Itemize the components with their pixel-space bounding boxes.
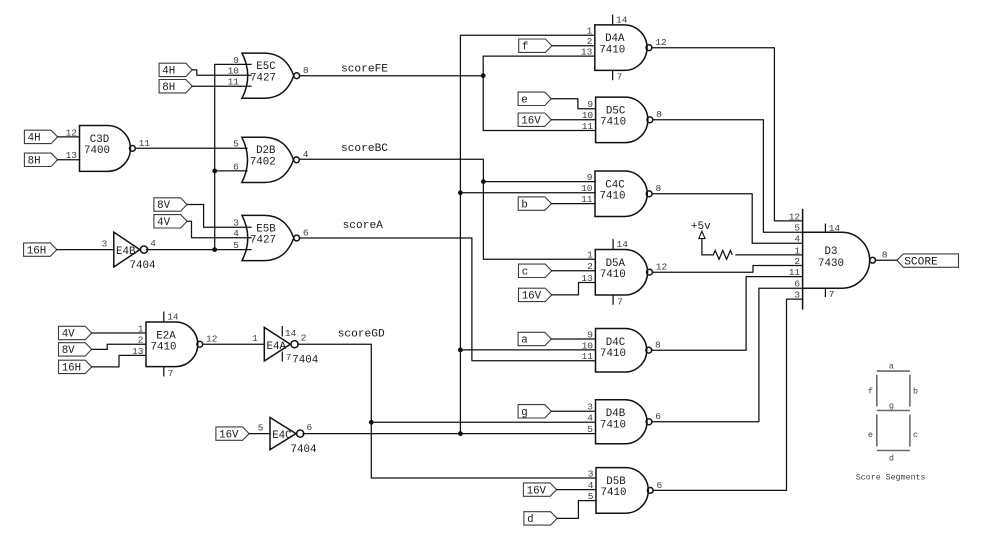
svg-text:7: 7 bbox=[286, 352, 292, 363]
wire 8H tag to E5C pin 11 bbox=[192, 85, 251, 87]
svg-text:7410: 7410 bbox=[600, 419, 626, 431]
input tag d (to D5B pin 5) bbox=[524, 512, 557, 526]
3-input NAND gate D5A (7410) bbox=[581, 239, 667, 307]
8-input NAND gate D3 (7430) bbox=[789, 209, 888, 310]
junction riser / C4C pin 10 bbox=[458, 190, 463, 195]
svg-text:4V: 4V bbox=[157, 217, 170, 229]
svg-text:7410: 7410 bbox=[600, 117, 626, 129]
svg-text:e: e bbox=[868, 430, 873, 440]
junction scoreGD / D4B pin 4 bbox=[369, 420, 374, 425]
svg-text:7410: 7410 bbox=[600, 269, 626, 281]
svg-text:E2A: E2A bbox=[156, 330, 176, 342]
input tag 16V (to E4C pin 5) bbox=[216, 427, 249, 441]
wire C4C output 8 to D3 pin 4 bbox=[653, 194, 803, 243]
wire E4C output riser to D4A pin 1 bbox=[460, 35, 594, 433]
svg-text:4H: 4H bbox=[28, 133, 41, 145]
svg-text:7404: 7404 bbox=[292, 355, 318, 367]
svg-text:6: 6 bbox=[657, 480, 663, 491]
input tag 4V (to E2A pin 1) bbox=[59, 326, 92, 340]
svg-text:14: 14 bbox=[617, 239, 629, 250]
svg-text:a: a bbox=[521, 335, 528, 347]
wire scoreA: E5B output 6 to D4C pin 11 bbox=[300, 238, 596, 361]
svg-text:g: g bbox=[521, 407, 527, 419]
wire D5A output 12 to D3 pin 2 bbox=[653, 266, 802, 273]
svg-text:16H: 16H bbox=[27, 245, 46, 257]
svg-text:D4A: D4A bbox=[605, 33, 625, 45]
svg-text:4: 4 bbox=[150, 238, 156, 249]
wire scoreGD branch to D4B pin 4 bbox=[371, 421, 595, 423]
svg-text:8V: 8V bbox=[157, 200, 170, 212]
svg-text:+5v: +5v bbox=[691, 221, 711, 233]
wire 16V tag to D5A pin 13 bbox=[552, 283, 596, 295]
wire E4B output net vertical riser to E5C pin 9 and D2B pin 6 bbox=[215, 64, 251, 249]
+5v power symbol bbox=[691, 221, 711, 239]
seven-segment legend: segment c bbox=[909, 415, 911, 447]
wire 4V tag to E2A pin 1 bbox=[92, 332, 146, 334]
svg-text:E5B: E5B bbox=[256, 223, 276, 235]
svg-text:E4C: E4C bbox=[272, 430, 292, 442]
svg-text:5: 5 bbox=[258, 422, 264, 433]
3-input NAND gate D5B (7410) bbox=[588, 468, 663, 514]
svg-text:scoreBC: scoreBC bbox=[341, 143, 388, 155]
inverter E4C (7404) bbox=[258, 418, 317, 457]
svg-text:b: b bbox=[913, 386, 918, 396]
svg-text:8: 8 bbox=[656, 109, 662, 120]
junction scoreFE riser bbox=[481, 73, 486, 78]
wire scoreFE: E5C output 8 to riser bbox=[300, 75, 484, 77]
svg-text:D5B: D5B bbox=[606, 476, 626, 488]
wire scoreFE riser branch to D5C pin 11 bbox=[483, 76, 595, 131]
svg-text:7427: 7427 bbox=[250, 72, 276, 84]
3-input NOR gate E5C (7427) bbox=[228, 53, 309, 98]
wire riser branch to D4C pin 10 bbox=[460, 349, 595, 351]
3-input NAND gate D4A (7410) bbox=[581, 15, 667, 83]
wire scoreBC: D2B output 4 to D5A pin 1 bbox=[299, 159, 595, 259]
input tag 16V (to D5B pin 4) bbox=[523, 483, 556, 497]
D3 pin 14 power stub bbox=[824, 224, 826, 233]
seven-segment legend: segment f bbox=[876, 375, 878, 407]
svg-text:6: 6 bbox=[307, 422, 313, 433]
input tag 16V (to D5C pin 10) bbox=[518, 113, 551, 127]
input tag 4H (to C3D pin 12) bbox=[24, 130, 57, 144]
svg-text:scoreFE: scoreFE bbox=[341, 64, 388, 76]
svg-text:d: d bbox=[889, 454, 894, 464]
svg-text:7410: 7410 bbox=[599, 45, 625, 57]
svg-text:D5A: D5A bbox=[606, 258, 626, 270]
svg-text:8: 8 bbox=[655, 340, 661, 351]
svg-text:8V: 8V bbox=[62, 345, 75, 357]
svg-text:6: 6 bbox=[655, 411, 661, 422]
wire e tag to D5C pin 9 bbox=[551, 99, 595, 109]
wire scoreFE riser branch to D4A pin 13 bbox=[483, 56, 595, 76]
svg-text:D2B: D2B bbox=[256, 145, 276, 157]
svg-text:8: 8 bbox=[882, 249, 888, 260]
svg-text:c: c bbox=[913, 430, 918, 440]
svg-text:7404: 7404 bbox=[291, 444, 317, 456]
wire D4A output 12 to D3 pin 12 bbox=[653, 48, 803, 221]
svg-text:12: 12 bbox=[656, 262, 668, 273]
svg-text:g: g bbox=[889, 401, 894, 411]
wire E4C output 6 to D4B pin 5 bbox=[303, 433, 596, 435]
wire D5C output 8 to D3 pin 5 bbox=[654, 120, 803, 232]
svg-text:f: f bbox=[868, 386, 873, 396]
wire 8V tag to E2A pin 2 bbox=[92, 344, 146, 349]
input tag 8V (to E5B pin 3) bbox=[154, 198, 187, 212]
wire E4B output net: E4B pin 4 to E5B pin 5 bbox=[147, 249, 252, 251]
svg-text:SCORE: SCORE bbox=[904, 256, 938, 268]
input tag b (to C4C pin 11) bbox=[518, 197, 551, 211]
svg-text:8: 8 bbox=[303, 65, 309, 76]
wire 16H tag to E2A pin 13 bbox=[92, 355, 146, 367]
wire C3D output 11 to D2B pin 5 bbox=[137, 147, 247, 149]
svg-text:3: 3 bbox=[102, 238, 108, 249]
svg-text:E4B: E4B bbox=[116, 246, 136, 258]
svg-text:7402: 7402 bbox=[250, 156, 276, 168]
wire g tag to D4B pin 3 bbox=[551, 410, 595, 412]
svg-text:16H: 16H bbox=[62, 363, 81, 375]
wire D4B output 6 to D3 pin 6 bbox=[653, 288, 803, 422]
svg-text:4H: 4H bbox=[162, 66, 175, 78]
svg-text:scoreGD: scoreGD bbox=[338, 329, 385, 341]
svg-text:7410: 7410 bbox=[151, 342, 177, 354]
wire D5B output 6 to D3 pin 3 bbox=[654, 299, 803, 490]
seven-segment legend: segment a bbox=[877, 370, 910, 372]
input tag g (to D4B pin 3) bbox=[518, 405, 551, 419]
wire 16H tag to E4B pin 3 bbox=[57, 249, 114, 251]
input tag 8H (to E5C pin 11) bbox=[159, 80, 192, 94]
svg-text:4V: 4V bbox=[62, 329, 75, 341]
svg-text:14: 14 bbox=[616, 15, 628, 26]
wire 4V tag to E5B pin 4 bbox=[187, 221, 251, 237]
seven-segment legend: segment d bbox=[877, 450, 910, 452]
svg-text:E4A: E4A bbox=[267, 341, 287, 353]
svg-text:7427: 7427 bbox=[250, 235, 276, 247]
2-input NOR gate D2B (7402) bbox=[233, 137, 309, 182]
output tag SCORE bbox=[897, 254, 959, 269]
svg-text:2: 2 bbox=[301, 333, 307, 344]
input tag 16V (to D5A pin 13) bbox=[519, 288, 552, 302]
svg-text:7404: 7404 bbox=[130, 260, 156, 272]
D3 pin 7 power stub bbox=[824, 288, 826, 297]
svg-text:16V: 16V bbox=[522, 291, 542, 303]
input tag 4H (to E5C pin 10) bbox=[159, 63, 192, 77]
svg-text:scoreA: scoreA bbox=[343, 220, 384, 232]
svg-text:D4B: D4B bbox=[606, 408, 626, 420]
3-input NAND gate E2A (7410) bbox=[132, 312, 218, 379]
junction at D2B pin 6 bbox=[212, 169, 217, 174]
svg-text:8: 8 bbox=[656, 183, 662, 194]
3-input NAND gate D4C (7410) bbox=[582, 329, 661, 373]
svg-text:6: 6 bbox=[303, 227, 309, 238]
wire resistor to D3 pin 1 bbox=[736, 254, 803, 256]
svg-text:7400: 7400 bbox=[84, 145, 110, 157]
3-input NAND gate C4C (7410) bbox=[581, 171, 661, 217]
wire 4H tag to E5C pin 10 bbox=[192, 70, 251, 75]
inverter E4B (7404) bbox=[102, 232, 157, 272]
svg-text:12: 12 bbox=[655, 37, 667, 48]
svg-text:7: 7 bbox=[829, 289, 835, 300]
svg-text:14: 14 bbox=[167, 312, 179, 323]
svg-text:12: 12 bbox=[206, 334, 218, 345]
wire b tag to C4C pin 11 bbox=[551, 203, 595, 205]
wire c tag to D5A pin 2 bbox=[552, 270, 596, 272]
svg-text:16V: 16V bbox=[219, 429, 239, 441]
3-input NAND gate D5C (7410) bbox=[582, 97, 662, 143]
junction at E5B pin 5 bbox=[212, 247, 217, 252]
wire 8H tag to C3D pin 13 bbox=[58, 159, 80, 161]
input tag 8H (to C3D pin 13) bbox=[24, 153, 57, 167]
wire scoreBC branch to C4C pin 9 bbox=[483, 181, 595, 183]
svg-text:e: e bbox=[521, 95, 527, 107]
input tag 16H (to E4B pin 3) bbox=[24, 243, 57, 257]
junction E4C output riser bbox=[458, 431, 463, 436]
wire 16V tag to D5C pin 10 bbox=[551, 119, 595, 121]
svg-text:1: 1 bbox=[252, 333, 258, 344]
wire a tag to D4C pin 9 bbox=[551, 338, 595, 340]
wire E2A output 12 to E4A pin 1 bbox=[204, 343, 265, 345]
input tag c (to D5A pin 2) bbox=[519, 264, 552, 278]
svg-text:16V: 16V bbox=[521, 115, 541, 127]
wire riser branch to C4C pin 10 bbox=[460, 192, 595, 194]
svg-text:16V: 16V bbox=[527, 485, 547, 497]
wire f tag to D4A pin 2 bbox=[552, 45, 595, 47]
svg-text:C4C: C4C bbox=[605, 179, 625, 191]
inverter E4A (7404) bbox=[252, 326, 318, 367]
wire scoreGD: E4A output 2 down to D5B pin 3 bbox=[298, 344, 596, 478]
input tag 16H (to E2A pin 13) bbox=[59, 360, 92, 374]
svg-text:11: 11 bbox=[139, 138, 151, 149]
svg-text:D5C: D5C bbox=[606, 105, 626, 117]
wire 8V tag to E5B pin 3 bbox=[187, 205, 251, 228]
NAND gate C3D (7400) bbox=[66, 126, 151, 172]
svg-text:14: 14 bbox=[285, 328, 297, 339]
svg-text:7410: 7410 bbox=[600, 191, 626, 203]
svg-text:E5C: E5C bbox=[256, 61, 276, 73]
svg-text:b: b bbox=[521, 199, 527, 211]
svg-text:7410: 7410 bbox=[601, 487, 627, 499]
junction scoreBC / C4C pin 9 bbox=[481, 179, 486, 184]
svg-text:8H: 8H bbox=[162, 82, 175, 94]
wire branch to D2B pin 6 bbox=[215, 170, 247, 172]
svg-text:a: a bbox=[889, 361, 894, 371]
svg-text:7430: 7430 bbox=[818, 258, 844, 270]
wire 16V tag to D5B pin 4 bbox=[557, 489, 596, 491]
svg-text:c: c bbox=[522, 267, 528, 279]
svg-text:d: d bbox=[527, 514, 533, 526]
input tag f (to D4A pin 2) bbox=[519, 39, 552, 53]
svg-text:4: 4 bbox=[303, 149, 309, 160]
resistor (pull-up to D3 pin 1) bbox=[713, 250, 732, 259]
input tag 4V (to E5B pin 4) bbox=[154, 215, 187, 229]
svg-text:D3: D3 bbox=[825, 246, 838, 258]
svg-text:8H: 8H bbox=[28, 156, 41, 168]
svg-text:D4C: D4C bbox=[606, 337, 626, 349]
svg-text:7: 7 bbox=[168, 368, 174, 379]
wire 16V tag to E4C pin 5 bbox=[249, 433, 270, 435]
seven-segment legend: segment e bbox=[876, 415, 878, 447]
svg-text:14: 14 bbox=[829, 223, 841, 234]
svg-text:C3D: C3D bbox=[90, 134, 109, 146]
svg-text:7: 7 bbox=[617, 296, 623, 307]
wire 4H tag to C3D pin 12 bbox=[58, 136, 80, 138]
input tag a (to D4C pin 9) bbox=[518, 332, 551, 346]
wire D3 output 8 to SCORE tag bbox=[876, 259, 897, 261]
wire +5v arrow to resistor bbox=[702, 239, 713, 255]
wire d tag to D5B pin 5 bbox=[557, 501, 596, 519]
3-input NAND gate D4B (7410) bbox=[587, 400, 661, 444]
wire D4C output 8 to D3 pin 11 bbox=[653, 277, 803, 351]
3-input NOR gate E5B (7427) bbox=[233, 215, 309, 260]
seven-segment legend: segment b bbox=[909, 375, 911, 407]
junction riser / D4C pin 10 bbox=[458, 348, 463, 353]
svg-text:f: f bbox=[522, 41, 528, 53]
svg-text:Score Segments: Score Segments bbox=[856, 473, 926, 482]
input tag 8V (to E2A pin 2) bbox=[59, 343, 92, 357]
svg-text:7: 7 bbox=[617, 72, 623, 83]
svg-text:7410: 7410 bbox=[600, 348, 626, 360]
seven-segment legend: segment g bbox=[877, 410, 910, 412]
input tag e (to D5C pin 9) bbox=[518, 92, 551, 106]
